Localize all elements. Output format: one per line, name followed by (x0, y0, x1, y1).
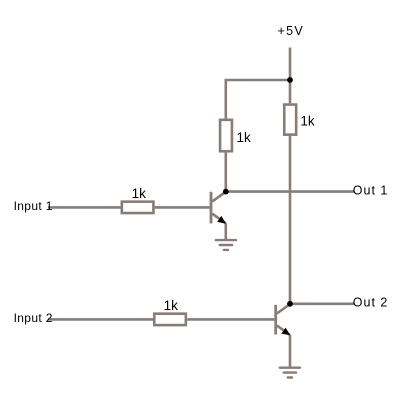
node: +5V rail junction (287, 77, 293, 83)
svg-text:1k: 1k (164, 298, 179, 313)
resistor R2 (Q2 collector load) (284, 105, 315, 135)
Q2 base bar (274, 305, 277, 335)
resistor R3 (Input 1 base resistor) (122, 186, 154, 213)
svg-text:+5V: +5V (278, 24, 305, 38)
wire: rail junction left and down to R1 top (226, 80, 290, 119)
svg-text:Out 2: Out 2 (353, 296, 389, 310)
Q2 collector lead (277, 304, 290, 313)
wire: R3 right lead to Q1 base (155, 206, 210, 209)
Q1 base bar (210, 192, 213, 224)
node: Q2 collector / Out 2 junction (287, 301, 293, 307)
transistor Q1 (NPN) (211, 192, 226, 224)
Q2 emitter lead (277, 326, 290, 336)
wire: Q1 emitter down to ground (225, 223, 228, 239)
svg-text:Out 1: Out 1 (353, 183, 389, 197)
ground (Q2 emitter) (280, 368, 300, 378)
wire: Input 2 to R4 left lead (48, 318, 153, 321)
wire: R1 bottom to Q1 collector node (225, 153, 228, 192)
svg-text:1k: 1k (237, 130, 252, 145)
wire: Q1 collector node to Out 1 (226, 190, 354, 193)
Q1 emitter arrow (217, 216, 226, 224)
svg-text:1k: 1k (300, 114, 315, 129)
svg-text:1k: 1k (132, 186, 147, 201)
transistor Q2 (NPN) (276, 304, 291, 335)
ground (Q1 emitter) (216, 240, 236, 250)
svg-text:Input 1: Input 1 (14, 199, 53, 213)
wire: +5V stem down to rail junction (289, 48, 292, 81)
wire: Q2 collector node to Out 2 (290, 302, 354, 305)
resistor R1 (Q1 collector load) (220, 120, 251, 151)
wire: Q2 emitter down to ground (289, 335, 292, 367)
wire: R2 bottom down to Q2 collector node (289, 136, 292, 304)
wire: Input 1 to R3 left lead (48, 206, 121, 209)
Q1 collector lead (212, 192, 226, 202)
node: Q1 collector / Out 1 junction (223, 189, 229, 195)
svg-text:Input 2: Input 2 (14, 311, 53, 325)
Q1 emitter lead (212, 214, 226, 224)
wire: R4 right lead to Q2 base (187, 318, 274, 321)
resistor R4 (Input 2 base resistor) (154, 298, 186, 325)
wire: rail junction down to R2 top (289, 80, 292, 103)
Q2 emitter arrow (281, 328, 290, 336)
